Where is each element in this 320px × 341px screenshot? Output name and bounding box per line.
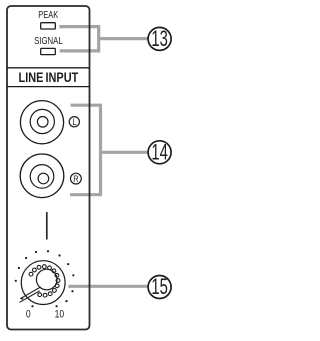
LINE INPUT box bottom line [7, 86, 90, 88]
leader line to callout 15 [68, 285, 148, 288]
panel outline [7, 6, 90, 330]
PEAK LED [41, 23, 56, 29]
vertical divider line below jacks [46, 212, 48, 240]
dial scale dots [15, 250, 75, 307]
circled R marking [71, 173, 82, 184]
knob outer circle [21, 261, 65, 305]
svg-text:13: 13 [151, 26, 167, 51]
knob knurl beads [29, 265, 60, 297]
jack L (phono connector) [20, 101, 63, 144]
svg-text:14: 14 [151, 139, 167, 164]
svg-text:L: L [72, 116, 76, 127]
svg-text:R: R [73, 173, 78, 184]
leader bracket to callout 14 [70, 105, 148, 195]
leader bracket to callout 13 [59, 27, 148, 51]
svg-text:10: 10 [55, 309, 65, 321]
SIGNAL LED [41, 48, 56, 54]
svg-text:LINE INPUT: LINE INPUT [19, 70, 79, 86]
callout circle 13 [148, 26, 171, 51]
svg-text:SIGNAL: SIGNAL [34, 35, 63, 46]
knob pointer (double line) [20, 287, 41, 302]
callout circle 15 [148, 274, 171, 299]
jack R (phono connector) [20, 154, 64, 198]
circled L marking [69, 116, 79, 127]
LINE INPUT box top line [7, 67, 90, 69]
callout circle 14 [148, 139, 171, 164]
knob body circle [36, 269, 57, 290]
svg-text:PEAK: PEAK [38, 9, 58, 20]
svg-text:0: 0 [26, 309, 31, 321]
svg-text:15: 15 [151, 274, 167, 299]
